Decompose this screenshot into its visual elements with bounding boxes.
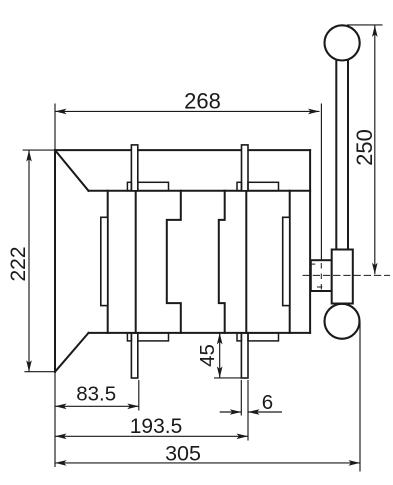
svg-text:305: 305 bbox=[165, 442, 201, 466]
svg-text:250: 250 bbox=[352, 129, 377, 166]
svg-text:6: 6 bbox=[262, 391, 273, 414]
svg-text:268: 268 bbox=[184, 89, 221, 114]
svg-text:193.5: 193.5 bbox=[130, 415, 183, 438]
svg-text:222: 222 bbox=[7, 246, 30, 281]
svg-text:83.5: 83.5 bbox=[76, 383, 116, 406]
svg-text:45: 45 bbox=[196, 344, 219, 367]
